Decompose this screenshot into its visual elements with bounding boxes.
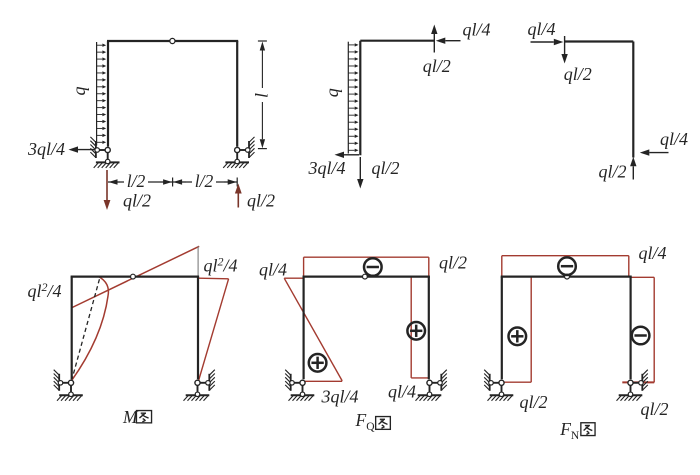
svg-text:ql/2: ql/2 (423, 56, 451, 76)
svg-text:ql/2: ql/2 (564, 64, 592, 84)
svg-text:ql/4: ql/4 (638, 243, 666, 263)
svg-text:l: l (252, 93, 272, 98)
svg-text:ql/2: ql/2 (519, 392, 547, 412)
svg-text:ql/4: ql/4 (527, 19, 555, 39)
svg-text:ql/4: ql/4 (462, 20, 490, 40)
svg-text:3ql/4: 3ql/4 (307, 158, 345, 178)
svg-text:3ql/4: 3ql/4 (27, 139, 65, 159)
svg-text:l/2: l/2 (195, 171, 214, 191)
svg-text:ql/4: ql/4 (660, 129, 688, 149)
svg-text:ql/2: ql/2 (598, 162, 626, 182)
svg-text:ql/4: ql/4 (388, 382, 416, 402)
svg-text:ql/2: ql/2 (123, 191, 151, 211)
svg-text:ql/2: ql/2 (640, 399, 668, 419)
svg-text:ql/2: ql/2 (371, 158, 399, 178)
svg-text:q: q (69, 87, 89, 96)
svg-text:ql/2: ql/2 (247, 191, 275, 211)
svg-text:ql/2: ql/2 (439, 253, 467, 273)
svg-text:ql/4: ql/4 (259, 260, 287, 280)
svg-text:3ql/4: 3ql/4 (320, 387, 358, 407)
svg-text:l/2: l/2 (127, 171, 146, 191)
svg-text:q: q (322, 88, 342, 97)
